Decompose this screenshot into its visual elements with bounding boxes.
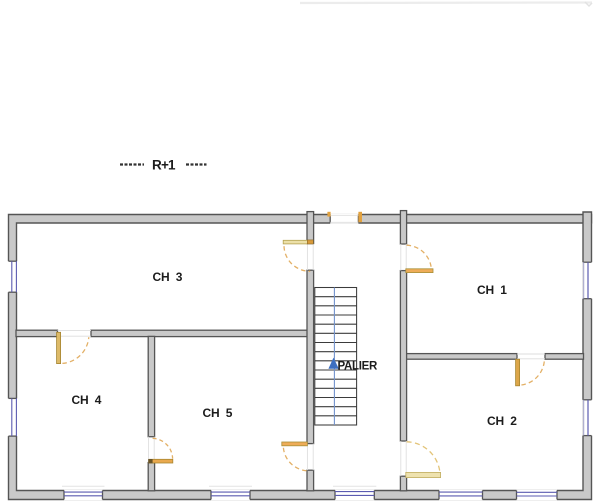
faint lines across CH4 top door opening: [58, 330, 92, 332]
interior wall V3 : bottom segment: [148, 463, 154, 491]
faint lines across CH1 door opening: [400, 244, 402, 271]
door D5 CH4 : swing arc: [62, 337, 88, 363]
outer wall ring: [9, 215, 592, 500]
door D1 CH3 : hinge cap on wall end: [307, 240, 313, 244]
door D4 CH5 : swing arc: [283, 448, 309, 471]
stairwell opening in top wall: [330, 214, 358, 224]
door D1 CH3 : leaf: [283, 240, 307, 244]
interior wall V1 : middle segment: [307, 270, 314, 443]
window W-bottom-E (CH2 right): [517, 490, 558, 501]
faint lines across CH4/CH5 door opening: [148, 437, 150, 463]
faint lines across divider door opening: [517, 353, 545, 355]
window W-bottom-A (CH4): [62, 486, 105, 500]
interior wall V1 : bottom segment: [307, 470, 314, 491]
stair axis blue line: [333, 288, 335, 426]
door D2 CH1 : swing arc: [407, 245, 432, 270]
window W-right-1 (CH1): [582, 262, 592, 299]
interior wall H1 : CH3 bottom, right segment: [91, 330, 308, 336]
door D7 CH1/CH2 divider : leaf (vertical): [516, 359, 520, 386]
svg-text:CH 4: CH 4: [72, 393, 102, 407]
window W-bottom-B (CH5): [209, 486, 252, 500]
label R+1: [120, 158, 207, 173]
svg-text:PALIER: PALIER: [338, 360, 379, 372]
staircase: [315, 288, 357, 426]
palier arrow triangle: [328, 358, 338, 369]
svg-text:CH 5: CH 5: [203, 406, 233, 420]
window W-bottom-D (CH2 left): [439, 490, 483, 501]
door D7 CH1/CH2 divider : swing arc: [521, 360, 544, 385]
svg-text:CH 2: CH 2: [487, 414, 517, 428]
interior wall H1 : CH3 bottom, left segment: [16, 330, 58, 336]
interior wall V2 : bottom segment: [400, 476, 406, 491]
window W-left-2 (CH4): [7, 398, 17, 436]
interior wall V2 : hall/CH1 top segment: [400, 211, 406, 244]
door D2 CH1 : leaf: [406, 269, 433, 273]
door D4 CH5 : leaf: [282, 442, 308, 446]
door D6 CH4/CH5 : leaf: [149, 459, 173, 463]
interior wall V1 : hall/CH3 top segment: [307, 212, 314, 244]
door D3 CH2 : leaf (pale): [406, 472, 441, 477]
door D5 CH4 : leaf (vertical): [57, 332, 61, 363]
window W-bottom-C (palier): [333, 486, 376, 500]
door D1 CH3 : swing arc: [284, 246, 310, 271]
faint remnant line top right: [300, 1, 592, 4]
orange post left of stairwell opening: [327, 212, 330, 217]
interior wall V3 : CH4/CH5 divider top segment: [148, 336, 154, 436]
orange post right of stairwell opening: [358, 212, 362, 222]
interior wall H3 : CH1/CH2 divider, right segment: [545, 354, 584, 360]
interior wall H3 : CH1/CH2 divider, left segment: [406, 354, 517, 360]
door D3 CH2 : swing arc: [407, 442, 440, 472]
right wall raised top: [583, 212, 592, 224]
faint lines across CH2 door opening: [400, 441, 402, 476]
svg-text:CH 1: CH 1: [477, 283, 507, 297]
svg-text:R+1: R+1: [152, 158, 176, 173]
svg-text:CH 3: CH 3: [153, 270, 183, 284]
faint lines across CH3 door opening: [306, 244, 308, 271]
window W-left-1 (CH3): [7, 261, 17, 292]
faint lines across CH5 door opening: [306, 444, 308, 471]
interior wall V2 : middle segment: [400, 271, 406, 441]
door D6 CH4/CH5 : swing arc: [153, 438, 173, 458]
window W-right-2 (CH2): [582, 400, 592, 436]
